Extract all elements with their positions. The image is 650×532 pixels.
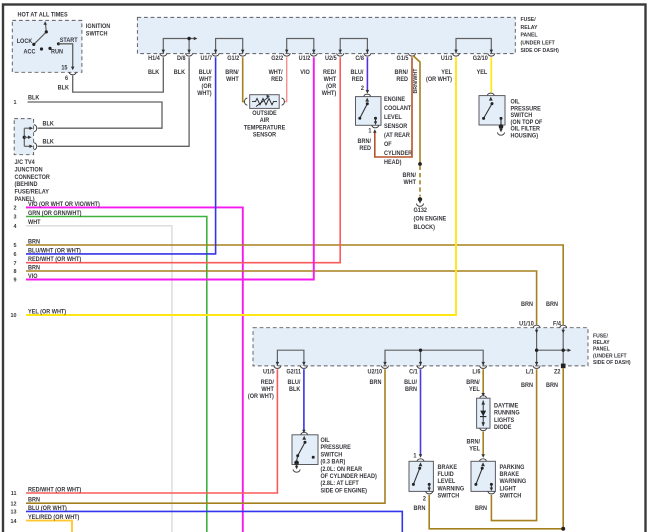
- wire row 12 BRN: [26, 369, 385, 503]
- svg-text:BRN: BRN: [405, 387, 417, 393]
- wire row 14 YEL/RED (OR WHT): [26, 521, 72, 532]
- oil pressure switch contacts: [482, 97, 502, 125]
- ignition pin 15: [69, 72, 76, 75]
- label 1 row: [13, 100, 16, 106]
- svg-text:BLU/: BLU/: [404, 380, 417, 386]
- label 8: [13, 269, 16, 275]
- svg-text:2: 2: [13, 205, 16, 211]
- svg-text:SIDE OF DASH): SIDE OF DASH): [520, 48, 559, 54]
- svg-text:U2/10: U2/10: [368, 369, 383, 375]
- svg-text:(OR WHT): (OR WHT): [248, 394, 274, 400]
- ignition switch S1 contacts: [32, 21, 60, 50]
- svg-text:12: 12: [10, 501, 16, 507]
- parking brake switch top pin connector: [480, 459, 487, 462]
- svg-text:WARNING: WARNING: [437, 486, 464, 492]
- svg-text:(ON ENGINE: (ON ENGINE: [414, 216, 447, 222]
- svg-text:RELAY: RELAY: [520, 25, 537, 31]
- svg-text:5: 5: [13, 243, 16, 249]
- svg-text:OIL: OIL: [321, 438, 331, 444]
- label pin U2/5: [325, 56, 337, 62]
- outside air temperature sensor left pin: [245, 98, 255, 105]
- svg-text:15: 15: [61, 65, 68, 71]
- label 9: [13, 278, 16, 284]
- label BRN/WHT at ground: [403, 173, 417, 186]
- label BLU/WHT (OR WHT): [28, 248, 81, 254]
- label pin Z2: [554, 369, 560, 375]
- svg-text:BLK: BLK: [148, 70, 160, 76]
- label 13: [10, 509, 16, 515]
- svg-text:F/4: F/4: [553, 321, 562, 327]
- label 11: [11, 491, 17, 497]
- daytime running lights diode D1: [480, 400, 486, 426]
- wire BRN Z2 to brake fluid switch pin 2: [429, 368, 565, 531]
- svg-text:WHT: WHT: [199, 77, 212, 83]
- svg-text:WHT/: WHT/: [269, 70, 283, 76]
- pin G2/11 connector: [300, 366, 307, 369]
- svg-text:G1/2: G1/2: [227, 56, 239, 62]
- svg-text:BRAKE: BRAKE: [499, 472, 519, 478]
- svg-text:U1/10: U1/10: [519, 321, 534, 327]
- label BRN above U1/10: [521, 302, 533, 308]
- label YEL (OR WHT): [28, 309, 66, 315]
- svg-text:U1/5: U1/5: [263, 369, 275, 375]
- svg-text:YEL: YEL: [469, 387, 480, 393]
- svg-text:CONNECTOR: CONNECTOR: [14, 175, 50, 181]
- svg-text:LIGHT: LIGHT: [499, 486, 516, 492]
- svg-text:RED: RED: [396, 77, 408, 83]
- svg-text:L/6: L/6: [472, 369, 480, 375]
- label BRN under L/1: [521, 383, 533, 389]
- svg-text:6: 6: [13, 252, 16, 258]
- svg-text:PANEL: PANEL: [593, 347, 610, 353]
- label pin U1/7: [200, 56, 212, 62]
- svg-text:BRN/: BRN/: [395, 70, 409, 76]
- label 7: [13, 261, 16, 267]
- label 6: [65, 76, 68, 82]
- svg-text:3: 3: [13, 215, 16, 221]
- svg-text:RED/: RED/: [261, 380, 275, 386]
- parking brake warning light switch contacts: [474, 462, 493, 491]
- pin G2/10 connector: [488, 53, 495, 56]
- J/C TV4 pin 1 connector: [34, 125, 37, 132]
- wire BRN/RED G1/5 to coolant sensor pin 1: [373, 57, 412, 157]
- label 2 brake fluid pin: [423, 496, 426, 502]
- svg-text:H1/4: H1/4: [148, 56, 160, 62]
- brake fluid switch top pin connector: [417, 459, 424, 462]
- svg-text:RELAY: RELAY: [593, 340, 610, 346]
- svg-text:VIO: VIO: [300, 70, 310, 76]
- svg-text:TEMPERATURE: TEMPERATURE: [244, 125, 286, 131]
- pin U1/5 connector: [274, 366, 281, 369]
- svg-text:(2.0L: ON REAR: (2.0L: ON REAR: [321, 467, 363, 473]
- coolant sensor pin 1 connector: [372, 125, 379, 128]
- wire row 11 RED/WHT (OR WHT): [26, 369, 277, 493]
- svg-text:WHT): WHT): [322, 91, 336, 97]
- svg-text:SIDE OF DASH): SIDE OF DASH): [593, 360, 631, 366]
- svg-text:IGNITION: IGNITION: [86, 24, 110, 30]
- svg-text:(ON TOP OF: (ON TOP OF: [510, 120, 542, 126]
- label 1 coolant pin: [368, 128, 372, 134]
- wire BLK row1 to J/C TV4 pin1: [28, 102, 163, 128]
- svg-text:11: 11: [11, 491, 17, 497]
- svg-text:JUNCTION: JUNCTION: [14, 167, 42, 173]
- label PARKING BRAKE WARNING LIGHT SWITCH: [499, 465, 526, 500]
- svg-text:SWITCH: SWITCH: [510, 113, 532, 119]
- J/C TV4 junction connector box: [14, 119, 33, 155]
- label BRN/RED at coolant pin1: [358, 139, 372, 152]
- svg-text:HOUSING): HOUSING): [510, 133, 538, 139]
- label BLK ignition wire: [58, 85, 70, 91]
- svg-text:OIL FILTER: OIL FILTER: [510, 126, 540, 132]
- wire label BLK at H1/4: [148, 70, 160, 76]
- svg-text:LIGHTS: LIGHTS: [494, 418, 514, 424]
- oil pressure switch 0.3 bar case ground: [293, 461, 300, 473]
- svg-text:BRAKE: BRAKE: [437, 465, 457, 471]
- label BLK jc pin1: [43, 121, 55, 127]
- svg-text:YEL: YEL: [477, 70, 488, 76]
- svg-text:U1/2: U1/2: [299, 56, 311, 62]
- label pin U1/5: [263, 369, 275, 375]
- svg-text:WARNING: WARNING: [499, 479, 526, 485]
- wire BRN/WHT branch from G1/5 to splice: [413, 55, 422, 166]
- pin Z2 terminal square: [561, 364, 566, 369]
- label pin G2/11: [286, 369, 301, 375]
- pin D/8 connector: [186, 53, 193, 56]
- svg-text:BLK: BLK: [43, 139, 55, 145]
- svg-text:10: 10: [10, 313, 16, 319]
- oil pressure switch top pin connector: [487, 93, 494, 96]
- label BRN/YEL under diode: [467, 439, 481, 452]
- svg-text:SWITCH: SWITCH: [321, 452, 343, 458]
- svg-text:RED: RED: [271, 77, 283, 83]
- svg-text:BRN/: BRN/: [358, 139, 372, 145]
- svg-text:2: 2: [361, 86, 364, 92]
- label pin H1/4: [148, 56, 160, 62]
- svg-text:DAYTIME: DAYTIME: [494, 403, 518, 409]
- label START: [60, 38, 78, 44]
- svg-text:FUSE/: FUSE/: [593, 333, 608, 339]
- label pin C/1: [409, 369, 418, 375]
- svg-text:BRN: BRN: [546, 383, 558, 389]
- wire BRN L/1 to parking brake switch pin 2: [491, 369, 536, 520]
- wire row 10 YEL (OR WHT): [26, 57, 456, 315]
- pin C/1 connector: [417, 366, 424, 369]
- label FUSE/RELAY PANEL (UNDER LEFT SIDE OF DASH) top: [520, 17, 559, 54]
- label 2: [13, 205, 16, 211]
- pin F/4 connector: [560, 325, 567, 328]
- wire BRN/YEL diode to parking brake switch: [481, 431, 485, 457]
- svg-text:8: 8: [13, 269, 16, 275]
- svg-text:SIDE OF ENGINE): SIDE OF ENGINE): [321, 488, 368, 494]
- svg-text:OF CYLINDER HEAD): OF CYLINDER HEAD): [321, 474, 377, 480]
- label BLK row1: [28, 95, 40, 101]
- svg-text:RED: RED: [352, 77, 364, 83]
- label RED/WHT (OR WHT): [28, 257, 81, 263]
- wire YEL G2/10 to oil pressure switch: [490, 57, 492, 92]
- svg-text:VIO: VIO: [28, 274, 38, 280]
- svg-text:C/8: C/8: [355, 56, 364, 62]
- label pin G1/5: [397, 56, 410, 62]
- label G132 (ON ENGINE BLOCK): [414, 208, 447, 231]
- svg-text:LOCK: LOCK: [17, 39, 33, 45]
- svg-text:Z2: Z2: [554, 369, 560, 375]
- svg-text:COOLANT: COOLANT: [384, 106, 412, 112]
- wire label VIO at U1/2: [300, 70, 310, 76]
- svg-text:BLK: BLK: [289, 387, 301, 393]
- svg-text:RED/WHT (OR WHT): RED/WHT (OR WHT): [28, 487, 81, 493]
- svg-text:G2/2: G2/2: [271, 56, 283, 62]
- label BRN/WHT vertical: [413, 68, 419, 94]
- svg-text:PRESSURE: PRESSURE: [321, 445, 351, 451]
- svg-text:BLU/: BLU/: [351, 70, 364, 76]
- svg-text:BRN/: BRN/: [403, 173, 417, 179]
- parking brake switch pin 2 connector: [488, 491, 495, 494]
- svg-text:9: 9: [13, 278, 16, 284]
- label ENGINE COOLANT LEVEL SENSOR: [384, 97, 413, 166]
- daytime running lights diode top pin connector: [480, 396, 487, 399]
- oil pressure switch case ground: [498, 124, 505, 135]
- wire WHT/RED G2/2 to outside air temperature sensor: [284, 57, 287, 101]
- svg-text:BRN: BRN: [28, 239, 40, 245]
- pin H1/4 connector: [160, 53, 167, 56]
- J/C TV4 internal bus: [23, 126, 33, 148]
- svg-text:HOT AT ALL TIMES: HOT AT ALL TIMES: [17, 12, 67, 18]
- label pin U1/10: [519, 321, 534, 327]
- svg-text:7: 7: [13, 261, 16, 267]
- svg-text:U1/7: U1/7: [200, 56, 212, 62]
- label pin U1/3: [441, 56, 453, 62]
- svg-text:ACC: ACC: [24, 49, 36, 55]
- svg-text:G2/11: G2/11: [286, 369, 301, 375]
- label BRN: [28, 239, 40, 245]
- svg-text:BRN: BRN: [28, 497, 40, 503]
- wire row 3 GRN (OR GRN/WHT): [26, 217, 207, 532]
- pin U1/2 connector: [310, 53, 317, 56]
- wire BRN/YEL L/6 to daytime running lights diode: [481, 369, 485, 396]
- wire row 9 VIO: [26, 57, 314, 279]
- svg-text:OF: OF: [384, 142, 392, 148]
- oil pressure switch 0.3 bar box: [292, 435, 318, 465]
- label pin U2/10: [368, 369, 383, 375]
- svg-text:CYLINDER: CYLINDER: [384, 151, 413, 157]
- label BRN under brake fluid switch: [414, 506, 426, 512]
- svg-text:YEL/RED (OR WHT): YEL/RED (OR WHT): [28, 515, 79, 521]
- svg-text:U1/3: U1/3: [441, 56, 453, 62]
- label pin L/6: [472, 369, 480, 375]
- pin L/6 connector: [480, 366, 487, 369]
- label pin U1/2: [299, 56, 311, 62]
- label OIL PRESSURE SWITCH (0.3 BAR): [321, 438, 377, 495]
- svg-text:6: 6: [65, 76, 68, 82]
- wire label BRN at U2/10: [370, 380, 382, 386]
- svg-text:BRN/: BRN/: [225, 70, 239, 76]
- wire label RED/ WHT (OR WHT) at U1/5: [248, 380, 274, 401]
- wire row 6 BLU/WHT (OR WHT): [26, 57, 216, 254]
- svg-text:PARKING: PARKING: [499, 465, 524, 471]
- label pin L/1: [526, 369, 535, 375]
- label pin G2/10: [473, 56, 488, 62]
- panel1 internal bus H1/4 to D/8: [162, 37, 198, 54]
- svg-text:RED/WHT (OR WHT): RED/WHT (OR WHT): [28, 257, 81, 263]
- daytime running lights diode box: [477, 398, 490, 428]
- label pin G1/2: [227, 56, 239, 62]
- svg-text:BRN: BRN: [521, 302, 533, 308]
- svg-text:SENSOR: SENSOR: [384, 124, 408, 130]
- label BRN above F/4: [546, 302, 558, 308]
- wire label YEL at G2/10: [477, 70, 488, 76]
- label pin C/8: [355, 56, 364, 62]
- svg-text:BLK: BLK: [174, 70, 186, 76]
- wire BLU/RED C/8 to coolant sensor pin 2: [366, 57, 370, 93]
- svg-text:RUN: RUN: [51, 49, 63, 55]
- pin U1/10 connector: [533, 325, 540, 328]
- label 1 brake fluid pin: [413, 453, 417, 459]
- ignition switch box: [12, 20, 82, 72]
- panel1 internal bus U1/7 to G1/2: [214, 39, 245, 54]
- brake fluid switch pin 2 connector: [426, 491, 433, 494]
- wire label BRN/ YEL at L/6: [466, 380, 480, 393]
- svg-text:ENGINE: ENGINE: [384, 97, 405, 103]
- svg-text:13: 13: [10, 509, 16, 515]
- brake fluid level warning switch box: [409, 461, 433, 491]
- label BLK jc pin2: [43, 139, 55, 145]
- wire BRN/WHT dashed to ground: [419, 166, 421, 197]
- svg-text:VIO (OR WHT OR VIO/WHT): VIO (OR WHT OR VIO/WHT): [28, 202, 100, 208]
- brake fluid level warning switch contacts: [412, 462, 431, 491]
- svg-text:1: 1: [13, 100, 16, 106]
- daytime running lights diode bottom pin connector: [480, 428, 487, 431]
- wire START to pin 15: [59, 44, 75, 70]
- svg-text:BRN: BRN: [28, 265, 40, 271]
- svg-text:SWITCH: SWITCH: [437, 493, 459, 499]
- fuse/relay panel (lower) box: [253, 328, 588, 366]
- oil pressure switch 0.3 bar contacts: [296, 436, 315, 461]
- outside air temperature sensor right pin: [274, 98, 284, 105]
- svg-text:GRN (OR GRN/WHT): GRN (OR GRN/WHT): [28, 211, 82, 217]
- label pin F/4: [553, 321, 562, 327]
- wire row 2 VIO (OR WHT OR VIO/WHT): [26, 207, 243, 532]
- pin C/8 connector: [364, 53, 371, 56]
- label 10: [10, 313, 16, 319]
- svg-text:SENSOR: SENSOR: [253, 132, 277, 138]
- svg-text:BLU/WHT (OR WHT): BLU/WHT (OR WHT): [28, 248, 81, 254]
- wire label BLU/ BLK at G2/11: [288, 380, 302, 393]
- label 6: [13, 252, 16, 258]
- svg-text:YEL (OR WHT): YEL (OR WHT): [28, 309, 66, 315]
- svg-text:(0.3 BAR): (0.3 BAR): [321, 459, 346, 465]
- pin G2/2 connector: [283, 53, 290, 56]
- svg-text:BLK: BLK: [43, 121, 55, 127]
- svg-text:(OR: (OR: [202, 84, 213, 90]
- label OUTSIDE AIR TEMPERATURE SENSOR: [244, 111, 286, 139]
- svg-text:(2.8L: AT LEFT: (2.8L: AT LEFT: [321, 481, 360, 487]
- panel1 internal bus G2/2 to U1/2: [285, 39, 316, 54]
- label pin G2/2: [271, 56, 283, 62]
- label ACC: [24, 49, 36, 55]
- svg-text:WHT: WHT: [403, 180, 416, 186]
- svg-text:C/1: C/1: [409, 369, 418, 375]
- svg-text:BRN: BRN: [521, 383, 533, 389]
- svg-text:BRN/: BRN/: [467, 439, 481, 445]
- svg-text:LEVEL: LEVEL: [437, 479, 455, 485]
- label 4: [13, 224, 17, 230]
- svg-text:BLK: BLK: [28, 95, 40, 101]
- wire label YEL (OR WHT) at U1/3: [426, 70, 452, 83]
- svg-text:RUNNING: RUNNING: [494, 411, 520, 417]
- panel1 internal bus U2/5 to C/8: [338, 39, 369, 54]
- svg-text:FUSE/: FUSE/: [520, 17, 536, 23]
- wire label BRN/ RED at G1/5: [395, 70, 409, 83]
- oil pressure switch box (top right): [479, 96, 505, 125]
- svg-text:2: 2: [423, 496, 426, 502]
- label BRN under parking brake switch: [475, 506, 487, 512]
- wire BLK ignition to fuse panel H1/4: [73, 57, 164, 92]
- panel2 internal bus U1/10 to L/1 and F/4 to Z2: [535, 328, 571, 366]
- svg-text:DIODE: DIODE: [494, 425, 512, 431]
- svg-text:WHT: WHT: [261, 387, 274, 393]
- wire BLK J/C TV4 pin2 to D/8: [38, 57, 190, 146]
- coolant sensor pin 2 connector: [364, 94, 371, 97]
- label BRAKE FLUID LEVEL WARNING SWITCH: [437, 465, 464, 500]
- svg-text:BLOCK): BLOCK): [414, 225, 435, 231]
- svg-text:RED/: RED/: [323, 70, 337, 76]
- wire label RED/ WHT (OR WHT) at U2/5: [322, 70, 337, 97]
- parking brake warning light switch box: [471, 461, 495, 491]
- pin U1/7 connector: [212, 53, 219, 56]
- label BRN: [28, 497, 40, 503]
- pin G1/5 connector: [409, 53, 416, 56]
- label FUSE/RELAY PANEL (UNDER LEFT SIDE OF DASH) lower: [593, 333, 631, 366]
- label RUN: [51, 49, 63, 55]
- svg-text:(BEHIND: (BEHIND: [14, 182, 37, 188]
- svg-text:(AT REAR: (AT REAR: [384, 133, 411, 139]
- label 12: [10, 501, 16, 507]
- svg-text:AIR: AIR: [260, 118, 270, 124]
- svg-text:BRN: BRN: [475, 506, 487, 512]
- wire BLU/BRN C/1 to brake fluid level switch: [419, 369, 423, 458]
- svg-text:SWITCH: SWITCH: [499, 493, 521, 499]
- svg-text:L/1: L/1: [526, 369, 535, 375]
- label BRN: [28, 265, 40, 271]
- svg-text:OUTSIDE: OUTSIDE: [252, 111, 277, 117]
- pin U2/5 connector: [337, 53, 344, 56]
- label WHT: [28, 220, 41, 226]
- svg-text:BLU/: BLU/: [288, 380, 301, 386]
- pin U2/10 connector: [382, 366, 389, 369]
- wire row 8 BRN: [26, 271, 537, 325]
- label J/C TV4 JUNCTION CONNECTOR: [14, 160, 50, 203]
- label BRN under Z2: [546, 383, 558, 389]
- svg-text:BRN: BRN: [370, 380, 382, 386]
- label 14: [10, 519, 17, 525]
- wire label BLK at D/8: [174, 70, 186, 76]
- svg-text:G132: G132: [414, 208, 427, 214]
- wire label BLU/ WHT (OR WHT) at U1/7: [197, 70, 212, 97]
- svg-text:RED: RED: [359, 146, 371, 152]
- svg-text:FUSE/RELAY: FUSE/RELAY: [14, 189, 49, 195]
- pin L/1 connector: [533, 366, 540, 369]
- svg-text:U2/5: U2/5: [325, 56, 337, 62]
- wire row 5 BRN: [26, 245, 563, 325]
- label BLU (OR WHT): [28, 506, 67, 512]
- svg-text:HEAD): HEAD): [384, 160, 402, 166]
- svg-text:(OR: (OR: [326, 84, 337, 90]
- label VIO: [28, 274, 38, 280]
- label RED/WHT (OR WHT): [28, 487, 81, 493]
- pin G1/2 connector: [239, 53, 246, 56]
- svg-text:WHT: WHT: [28, 220, 41, 226]
- panel2 internal bus U1/5 to G2/11: [276, 350, 306, 366]
